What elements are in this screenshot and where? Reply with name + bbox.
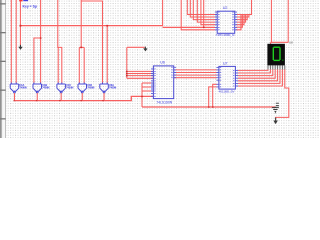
svg-text:74LS190N: 74LS190N (156, 100, 173, 104)
svg-text:U8: U8 (289, 40, 293, 44)
svg-text:U7: U7 (223, 62, 228, 66)
svg-text:7400N: 7400N (19, 86, 26, 90)
svg-text:Key = Sp: Key = Sp (23, 4, 37, 8)
svg-text:U2: U2 (223, 6, 228, 10)
svg-text:U6: U6 (160, 60, 165, 64)
svg-text:7400N: 7400N (109, 86, 116, 90)
svg-text:7400N: 7400N (66, 86, 73, 90)
svg-text:74HC1580_N: 74HC1580_N (216, 33, 235, 37)
svg-text:7400N: 7400N (87, 86, 94, 90)
svg-text:7400N: 7400N (42, 86, 49, 90)
svg-text:4511BD_5V: 4511BD_5V (219, 90, 235, 94)
